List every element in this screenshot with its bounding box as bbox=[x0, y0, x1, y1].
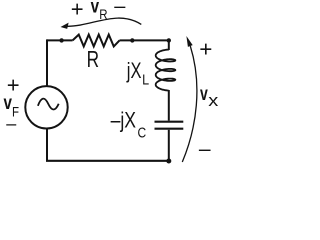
svg-text:R: R bbox=[99, 6, 107, 22]
wire top-left horizontal segment bbox=[47, 39, 73, 41]
junction dot left of resistor bbox=[59, 38, 63, 42]
wire between inductor and capacitor bbox=[168, 90, 170, 121]
svg-text:x: x bbox=[208, 90, 219, 109]
voltage source VF circle bbox=[25, 86, 67, 128]
wire top-right horizontal segment bbox=[120, 39, 169, 41]
wire bottom rail bbox=[46, 160, 169, 162]
svg-text:L: L bbox=[142, 70, 149, 87]
arrow for vR (curved, arrowhead at left) bbox=[61, 18, 142, 29]
junction dot top-right node bbox=[167, 38, 171, 42]
junction dot bottom-right node bbox=[166, 159, 171, 164]
wire right vertical stub above inductor bbox=[168, 39, 170, 50]
capacitor C (-jXC) top plate bbox=[155, 121, 184, 123]
svg-text:jX: jX bbox=[126, 59, 142, 84]
voltage source VF sine symbol bbox=[38, 99, 59, 110]
svg-text:v: v bbox=[200, 83, 208, 105]
svg-text:R: R bbox=[87, 48, 99, 73]
junction dot right of resistor bbox=[130, 38, 134, 42]
svg-text:–: – bbox=[199, 138, 211, 161]
capacitor C (-jXC) bottom plate bbox=[155, 128, 184, 130]
svg-text:+: + bbox=[71, 0, 84, 21]
wire below capacitor bbox=[168, 130, 170, 161]
svg-text:–: – bbox=[114, 0, 126, 18]
wire left vertical upper (top node down to source) bbox=[46, 39, 48, 86]
svg-text:–jX: –jX bbox=[111, 109, 136, 133]
wire left vertical lower (source down to bottom rail) bbox=[46, 129, 48, 161]
svg-text:–: – bbox=[6, 114, 16, 134]
svg-text:+: + bbox=[199, 37, 212, 62]
svg-text:C: C bbox=[138, 124, 147, 141]
inductor L (jXL) coil bbox=[156, 50, 176, 91]
resistor R zigzag bbox=[73, 35, 120, 47]
svg-text:v: v bbox=[91, 0, 100, 17]
svg-text:v: v bbox=[4, 91, 13, 113]
arrow for vx (curved, arrowhead at top) bbox=[182, 36, 197, 162]
